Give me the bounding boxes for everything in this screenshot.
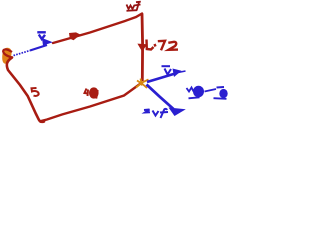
orange starburst at node R [136, 79, 149, 89]
blue dash between annotations [205, 89, 217, 92]
arrowhead of vi pointing right [42, 38, 53, 46]
wire: bottom edge R to B [41, 83, 142, 122]
orange dot at node L [2, 48, 11, 64]
arrowhead scribble on edge L-T pointing up-right [69, 32, 81, 40]
vector vi: blue shaft from L [14, 51, 31, 56]
wire: left side L to B [7, 58, 44, 122]
node L corner curl at launch point [3, 49, 12, 57]
label v with overbar (blue) near v arrow [162, 66, 172, 74]
wire: parallelogram edge L to T (vi direction side) [53, 14, 142, 44]
arrowhead of v with tip line [173, 69, 182, 78]
label t72 (red) right of vertical side [147, 40, 179, 51]
blue annotation glyph 5-ball at far right [214, 87, 228, 99]
label 49 (red) above bottom edge [85, 87, 99, 98]
arrowhead of vf pointing down-right [169, 108, 186, 117]
label 5 beside left side [32, 88, 39, 96]
vector v: blue shaft from R up-right [147, 73, 176, 82]
label vi with overbar (blue) [37, 32, 46, 39]
blue annotation text vo at bottom right [187, 86, 205, 99]
vector vf: blue shaft from R down-right [147, 85, 174, 110]
label vf (blue) below-left of vf arrow [144, 109, 168, 118]
label vf (red) at top vertex [127, 2, 141, 11]
wire: right vertical side T to R [141, 14, 144, 82]
arrowhead on vertical side pointing down [137, 44, 147, 52]
